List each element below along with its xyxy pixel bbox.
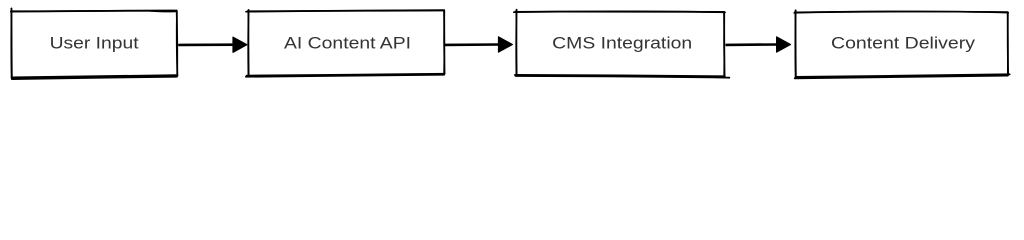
box CMS Integration <box>514 10 730 78</box>
box AI Content API <box>246 10 445 77</box>
arrow 3 <box>726 37 791 52</box>
arrow 2 <box>445 37 513 52</box>
box Content Delivery <box>794 10 1009 78</box>
svg-text:CMS Integration: CMS Integration <box>552 34 692 52</box>
svg-text:AI Content API: AI Content API <box>284 34 411 52</box>
box User Input <box>11 8 178 79</box>
svg-text:User Input: User Input <box>50 35 139 53</box>
svg-text:Content Delivery: Content Delivery <box>831 34 976 52</box>
arrow 1 <box>178 37 247 52</box>
